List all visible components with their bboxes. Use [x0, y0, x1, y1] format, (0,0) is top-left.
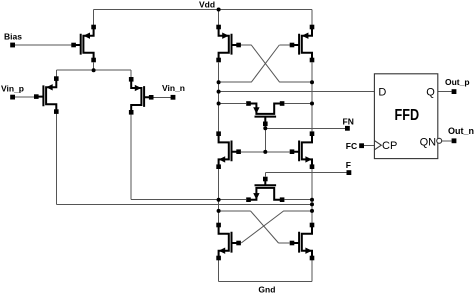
wire Gnd rail — [219, 281, 312, 283]
transistor M6 FN-gated NMOS left — [216, 131, 241, 169]
wire M2 drain down — [55, 113, 57, 204]
junction FN net — [263, 126, 267, 130]
wire M1 source down to tail — [93, 62, 95, 70]
svg-text:Vdd: Vdd — [199, 0, 215, 9]
junction tail node — [92, 68, 96, 72]
wire node A lower column — [218, 169, 220, 223]
junction node A cross2 — [217, 209, 221, 213]
wire Vin_p terminal to M2 gate — [13, 96, 37, 98]
wire M8 source to Gnd rail — [218, 260, 220, 281]
flip-flop U1 FFD box — [374, 74, 437, 159]
transistor M10 equalizer PMOS (FN gate) — [246, 101, 284, 126]
clock edge triangle at CP — [374, 141, 381, 150]
wire M4 gate cross-couple diagonal — [251, 45, 279, 82]
terminal Out_n — [452, 138, 457, 143]
wire M11 right pin to node B — [284, 199, 312, 201]
wire M4 gate stub — [239, 44, 252, 46]
wire M5 gate cross-couple diagonal — [251, 45, 279, 82]
wire F net to M11 gate — [264, 173, 266, 177]
QN inversion bubble — [437, 138, 442, 143]
wire FC terminal to CP pin — [364, 145, 375, 147]
wire Bias terminal to M1 gate — [13, 44, 74, 46]
wire M6 M7 gate bus — [241, 151, 290, 153]
svg-text:Q: Q — [426, 86, 435, 98]
wire tail to M2 source — [55, 70, 57, 76]
junction Vdd rail / M4 — [217, 8, 221, 12]
junction node B cross2 — [310, 209, 314, 213]
wire node B lower column — [311, 169, 313, 223]
wire M3 gate to Vin_n terminal — [151, 96, 173, 98]
terminal Vin_n — [171, 95, 176, 100]
svg-text:Gnd: Gnd — [258, 285, 275, 294]
junction node A D-wire — [217, 90, 221, 94]
wire F net to F terminal — [265, 172, 346, 174]
transistor M1 bias current source PMOS — [71, 25, 96, 63]
wire node A to FFD D input — [219, 91, 375, 93]
svg-text:FC: FC — [346, 141, 357, 151]
wire tail to M3 source — [130, 70, 132, 77]
junction node A cross-couple — [217, 80, 221, 84]
svg-text:Out_n: Out_n — [448, 126, 474, 136]
transistor M9 cross-coupled NMOS right — [290, 223, 315, 261]
wire M9 source to Gnd rail — [311, 260, 313, 281]
transistor M4 cross-coupled PMOS left — [216, 25, 241, 63]
wire node A stub to cross — [219, 210, 251, 212]
wire tail node horizontal — [56, 69, 131, 71]
wire node B stub to cross — [284, 210, 312, 212]
wire M5 gate stub — [279, 44, 292, 46]
wire Vdd rail to M5 drain — [311, 10, 313, 25]
wire cross-couple to node A — [219, 81, 252, 83]
transistor M11 equalizer NMOS (F gate) — [246, 177, 284, 202]
wire diagonal to M9 gate square — [279, 242, 290, 244]
junction node B equalizer — [310, 102, 314, 106]
svg-text:Bias: Bias — [4, 31, 22, 41]
svg-text:Vin_p: Vin_p — [1, 83, 24, 93]
junction node B cross-couple — [310, 80, 314, 84]
wire M3 drain down — [130, 114, 132, 200]
svg-text:Out_p: Out_p — [445, 77, 470, 87]
wire Vdd rail — [94, 9, 312, 11]
terminal FC — [359, 143, 364, 148]
svg-text:D: D — [378, 86, 386, 98]
wire node B upper column — [311, 62, 313, 131]
junction node A lower — [217, 198, 221, 202]
wire Vdd rail to M1 drain — [93, 10, 95, 25]
terminal FN — [345, 126, 350, 131]
transistor M5 cross-coupled PMOS right — [290, 25, 315, 63]
junction node A equalizer — [217, 102, 221, 106]
terminal F — [347, 170, 352, 175]
terminal Out_p — [452, 89, 457, 94]
svg-text:FN: FN — [343, 116, 354, 126]
wire M2 drain to node B — [56, 203, 312, 205]
wire node A to M10 left pin — [219, 103, 247, 105]
wire node A cross diagonal to M9 gate — [251, 211, 279, 243]
wire FFD Q to Out_p — [438, 91, 452, 93]
junction FN gate bus — [263, 150, 267, 154]
svg-text:QN: QN — [420, 136, 437, 148]
transistor M2 input PMOS Vin_p — [34, 76, 59, 114]
junction node B equalizer2 — [310, 198, 314, 202]
transistor M3 input PMOS Vin_n — [129, 77, 154, 115]
wire node A upper column — [218, 62, 220, 131]
wire cross-couple to node B — [280, 81, 312, 83]
transistor M7 FN-gated NMOS right — [290, 131, 315, 169]
transistor M8 cross-coupled NMOS left — [216, 223, 241, 261]
wire FN net to FN terminal — [265, 127, 345, 129]
wire node B cross diagonal to M8 gate — [241, 211, 284, 243]
terminal Bias — [10, 43, 15, 48]
svg-text:CP: CP — [382, 140, 397, 152]
svg-text:F: F — [346, 160, 351, 170]
terminal Vin_p — [10, 95, 15, 100]
svg-text:Vin_n: Vin_n — [162, 83, 185, 93]
wire M10 right pin to node B — [284, 103, 312, 105]
junction node B Vin_p drain — [310, 202, 314, 206]
svg-text:FFD: FFD — [395, 107, 420, 124]
wire Vdd rail to M4 drain — [218, 10, 220, 25]
wire FFD QN to Out_n — [442, 140, 452, 142]
wire FN net vertical — [264, 126, 266, 152]
wire M3 drain to node A and M11 — [131, 199, 246, 201]
